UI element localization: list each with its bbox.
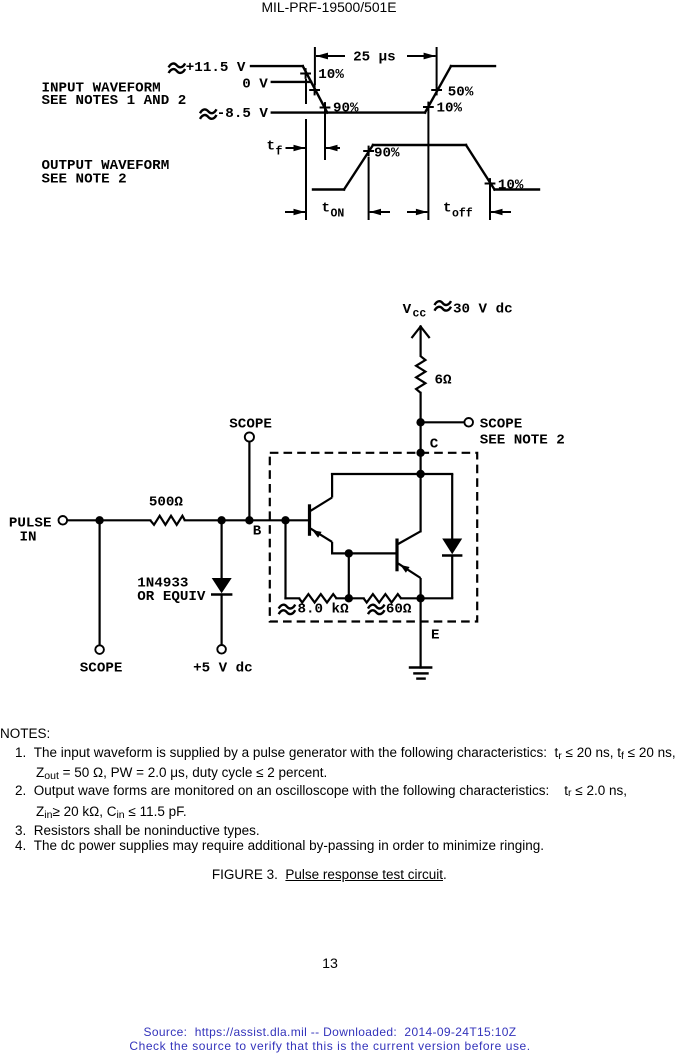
svg-text:off: off (452, 208, 473, 221)
open terminals (59, 418, 474, 654)
input waveform top level left (251, 65, 303, 67)
svg-text:ON: ON (331, 208, 345, 221)
approx before Vcc 30 (435, 301, 452, 311)
svg-text:90%: 90% (333, 101, 359, 117)
svg-text:+11.5 V: +11.5 V (186, 60, 246, 76)
node: Q1 base / R3 junction (281, 516, 289, 524)
header doc number (0, 0, 658, 15)
input waveform rising edge (425, 66, 451, 113)
svg-text:cc: cc (413, 308, 427, 321)
transistor Q2 (397, 531, 421, 598)
output waveform high level (373, 144, 466, 146)
terminal: scope right (464, 418, 473, 427)
25us dimension arrow right shaft (407, 55, 436, 57)
wire: node B up to scope terminal (248, 442, 250, 521)
tf dimension arrow right shaft (326, 147, 340, 149)
output waveform rising edge (344, 145, 373, 190)
resistor R4 60 ohm (364, 594, 401, 602)
svg-text:+5 V dc: +5 V dc (193, 661, 253, 677)
wire: bottom rail left (286, 597, 300, 599)
tf arrowhead right (326, 145, 338, 151)
resistor R3 8.0k ohm (299, 594, 336, 602)
node: diode branch junction (217, 516, 225, 524)
notes text (0, 726, 50, 741)
svg-text:10%: 10% (318, 67, 344, 83)
tON dimension arrow left shaft (285, 211, 305, 213)
tOFF arrowhead left (416, 209, 428, 215)
plus mark at 90% output rise (363, 150, 374, 152)
extension line at 90% of output rise (368, 157, 370, 220)
wire: pulse-in node down to scope terminal (98, 520, 100, 645)
25us dimension arrow left shaft (316, 55, 345, 57)
wire: resistor R1 to Q1 base (185, 519, 308, 521)
transistor Q1 (310, 474, 333, 553)
terminal: scope bottom left (95, 645, 104, 654)
wire: internal top rail (332, 473, 452, 475)
svg-text:t: t (322, 201, 331, 217)
svg-text:10%: 10% (498, 178, 524, 194)
terminal: scope top (245, 432, 254, 441)
approx symbol before +11.5 V (169, 63, 186, 73)
resistor R2 6 ohm (416, 356, 425, 393)
footer (0, 1025, 660, 1039)
svg-text:30 V dc: 30 V dc (453, 302, 513, 318)
svg-text:SEE NOTE 2: SEE NOTE 2 (42, 172, 127, 188)
svg-text:t: t (267, 139, 276, 155)
diode D2 internal (442, 474, 462, 598)
plus mark at 50% falling (309, 89, 320, 91)
dashed package outline (270, 453, 477, 622)
tOFF arrowhead right (491, 209, 503, 215)
approx symbol before -8.5 V (200, 109, 217, 119)
wire: Q1 emitter to Q2 base (332, 552, 395, 554)
wire: pulse in to resistor R1 (67, 519, 150, 521)
junction dots (95, 418, 424, 602)
25us arrowhead left (316, 53, 328, 60)
diode D1 1N4933 (211, 578, 232, 595)
svg-text:E: E (431, 628, 440, 644)
extension line at 10% of input rise (427, 112, 429, 220)
tf dimension arrow left shaft (286, 147, 306, 149)
node: R3/R4 junction (345, 594, 353, 602)
tf arrowhead left (294, 145, 306, 151)
plus mark at 50% rising (431, 89, 442, 91)
input waveform 0V reference line (272, 81, 311, 83)
wire: mid node down to resistor junction (348, 553, 350, 598)
svg-text:SEE NOTE 2: SEE NOTE 2 (480, 433, 565, 449)
svg-text:90%: 90% (374, 145, 400, 161)
svg-text:SCOPE: SCOPE (80, 661, 123, 677)
wire: node C to scope terminal right (421, 421, 465, 423)
node E junction (416, 594, 424, 602)
node C scope junction (416, 418, 424, 426)
extension line at 10% of falling edge (305, 79, 307, 104)
svg-text:-8.5 V: -8.5 V (217, 106, 269, 122)
svg-text:50%: 50% (448, 84, 474, 100)
tOFF dimension arrow right shaft (491, 211, 511, 213)
25us dimension extension line right (436, 47, 438, 85)
output waveform low level right (495, 188, 540, 190)
wire: bottom rail right (401, 597, 452, 599)
resistor R1 500 ohm (150, 516, 185, 525)
svg-text:0 V: 0 V (242, 77, 268, 93)
input waveform bottom level (272, 111, 425, 113)
page number (0, 956, 660, 972)
plus mark at 10% falling (300, 73, 311, 75)
svg-text:B: B (253, 524, 262, 540)
tON arrowhead left (294, 209, 306, 215)
input waveform falling edge (303, 66, 328, 113)
node: Q1 emitter / Q2 base junction (345, 549, 353, 557)
svg-text:60Ω: 60Ω (386, 602, 412, 618)
wire: diode D1 cathode to +5V terminal (221, 595, 223, 645)
approx before 8.0k (279, 605, 296, 615)
plus mark at 10% output fall (485, 183, 496, 185)
tON dimension arrow right shaft (370, 211, 390, 213)
transistor Q2 emitter arrow (400, 565, 409, 573)
svg-text:t: t (443, 201, 452, 217)
svg-text:SEE NOTES 1 AND 2: SEE NOTES 1 AND 2 (42, 93, 187, 109)
plus mark at 10% rising (423, 106, 434, 108)
svg-text:OR EQUIV: OR EQUIV (137, 589, 206, 605)
wire: Vcc arrow shaft to resistor R2 (420, 327, 422, 356)
input waveform top level right (451, 65, 495, 67)
svg-text:V: V (403, 302, 412, 318)
svg-text:10%: 10% (437, 101, 463, 117)
ground symbol (409, 668, 433, 679)
svg-text:f: f (276, 146, 283, 159)
wire: emitter node to ground (420, 598, 422, 667)
terminal: pulse in (59, 516, 68, 525)
svg-text:SCOPE: SCOPE (229, 417, 272, 433)
svg-text:SCOPE: SCOPE (480, 417, 523, 433)
wire: resistor R2 to Q2 collector junction (420, 393, 422, 532)
figure caption (212, 867, 447, 882)
terminal: +5V (217, 645, 226, 654)
Vcc arrow head (412, 327, 429, 338)
node: pulse-in/scope junction (95, 516, 103, 524)
extension line at 10% of output fall (489, 188, 491, 220)
wire: bottom rail mid (336, 597, 363, 599)
svg-text:25 µs: 25 µs (353, 50, 396, 66)
node B junction (245, 516, 253, 524)
25us arrowhead right (424, 53, 436, 60)
plus mark at 90% falling (320, 107, 331, 109)
wire: node to diode D1 anode (221, 520, 223, 578)
extension line at 90% of falling edge (324, 113, 326, 160)
25us dimension extension line left (314, 47, 316, 85)
svg-text:IN: IN (20, 530, 37, 546)
output waveform falling edge (466, 145, 495, 190)
node: top rail junction (416, 470, 424, 478)
transistor Q1 emitter arrow (312, 530, 321, 538)
tOFF dimension arrow left shaft (407, 211, 427, 213)
wire: Q1 base node down to R3 (284, 520, 286, 598)
svg-text:8.0 kΩ: 8.0 kΩ (298, 602, 350, 618)
tON arrowhead right (370, 209, 381, 215)
svg-text:C: C (430, 437, 439, 453)
svg-text:500Ω: 500Ω (149, 495, 184, 511)
output waveform low level left (313, 188, 344, 190)
approx before 60 (368, 605, 385, 615)
node: package pin C (416, 449, 424, 457)
svg-text:6Ω: 6Ω (435, 373, 453, 389)
